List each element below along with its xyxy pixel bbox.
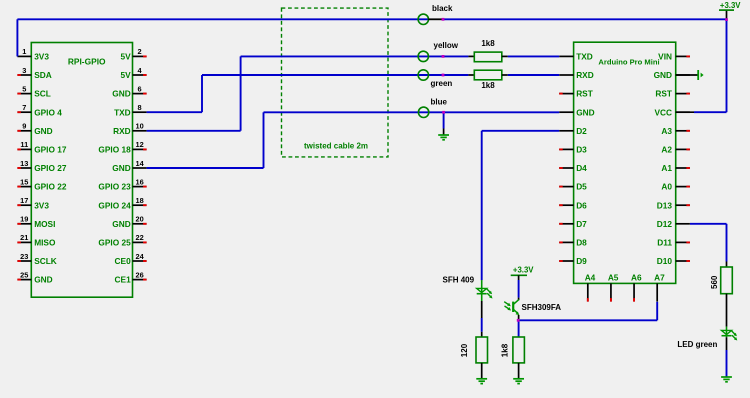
pin VIN of U1 (right): [658, 52, 690, 62]
svg-text:3V3: 3V3: [34, 200, 49, 210]
pin 11 (GPIO 17) of RPI-GPIO: [17, 140, 66, 154]
node on green wire: [442, 74, 445, 77]
connection-pin symbol at U1 GND: [697, 70, 699, 80]
svg-text:D6: D6: [576, 200, 587, 210]
svg-text:A4: A4: [585, 273, 596, 283]
svg-text:3V3: 3V3: [34, 52, 49, 62]
svg-text:VCC: VCC: [654, 107, 672, 117]
wire TXD horizontal: [202, 74, 468, 76]
pin 2 (5V) of RPI-GPIO: [121, 47, 147, 61]
pin A0 of U1 (right): [661, 182, 690, 192]
wire to VCC pin: [694, 111, 727, 113]
svg-text:20: 20: [135, 215, 143, 224]
svg-text:6: 6: [138, 84, 142, 93]
svg-text:Arduino Pro Mini: Arduino Pro Mini: [598, 58, 659, 67]
svg-text:1k8: 1k8: [481, 81, 495, 90]
wire LED to R3: [481, 301, 483, 318]
resistor R2 lead right: [502, 74, 508, 76]
svg-text:SDA: SDA: [34, 70, 52, 80]
pin 24 (CE0) of RPI-GPIO: [115, 252, 147, 266]
svg-text:RXD: RXD: [113, 126, 131, 136]
twisted-cable boundary box: [282, 8, 389, 157]
pin D4 of U1 (left): [559, 163, 587, 173]
connector J1 RPI-GPIO body: [31, 43, 132, 298]
svg-text:GPIO 4: GPIO 4: [34, 107, 62, 117]
svg-text:GPIO 18: GPIO 18: [98, 145, 131, 155]
svg-text:D9: D9: [576, 256, 587, 266]
wire RXD riser: [240, 56, 242, 130]
pin 12 (GPIO 18) of RPI-GPIO: [98, 140, 146, 154]
svg-text:1k8: 1k8: [481, 39, 495, 48]
pin 19 (MOSI) of RPI-GPIO: [17, 215, 55, 229]
plug circle on black wire: [418, 14, 428, 24]
pin 22 (GPIO 25) of RPI-GPIO: [98, 233, 146, 247]
resistor R2 1k8 (green line): [474, 70, 502, 80]
pin GND of U1 (right): [654, 70, 690, 80]
wire emitter to A7 horizontal: [519, 319, 658, 321]
svg-text:yellow: yellow: [434, 41, 459, 50]
svg-text:21: 21: [20, 233, 28, 242]
svg-text:D8: D8: [576, 238, 587, 248]
pin 10 (RXD) of RPI-GPIO: [113, 122, 146, 136]
pin A5 of U1 (bottom): [608, 273, 619, 302]
pin 5 (SCL) of RPI-GPIO: [17, 84, 50, 98]
pin TXD of U1 (left): [559, 52, 593, 62]
svg-text:23: 23: [20, 252, 28, 261]
pin 26 (CE1) of RPI-GPIO: [115, 270, 147, 284]
svg-text:9: 9: [22, 122, 26, 131]
svg-text:LED green: LED green: [677, 340, 717, 349]
pin A1 of U1 (right): [661, 163, 690, 173]
pin 6 (GND) of RPI-GPIO: [112, 84, 146, 98]
pin 18 (GPIO 24) of RPI-GPIO: [98, 196, 146, 210]
svg-text:24: 24: [135, 252, 144, 261]
svg-text:GND: GND: [112, 163, 130, 173]
svg-text:black: black: [432, 4, 453, 13]
LED D2 green: [722, 330, 732, 334]
resistor R1 lead right: [502, 55, 508, 57]
pin RST of U1 (left): [559, 89, 593, 99]
wire 3V3 top horizontal (left of plug): [17, 18, 428, 20]
svg-text:CE1: CE1: [115, 275, 132, 285]
svg-text:green: green: [431, 79, 453, 88]
pin A7 of U1 (bottom): [654, 273, 665, 302]
svg-text:D7: D7: [576, 219, 587, 229]
wire GND riser: [263, 112, 265, 168]
svg-text:11: 11: [20, 140, 28, 149]
svg-text:RXD: RXD: [576, 70, 594, 80]
svg-text:A6: A6: [631, 273, 642, 283]
pin RXD of U1 (left): [559, 70, 594, 80]
pin 9 (GND) of RPI-GPIO: [17, 122, 52, 136]
svg-text:SCLK: SCLK: [34, 256, 57, 266]
pin 14 (GND) of RPI-GPIO: [112, 159, 146, 173]
svg-text:15: 15: [20, 177, 28, 186]
pin A4 of U1 (bottom): [585, 273, 596, 302]
svg-text:SFH 409: SFH 409: [443, 276, 475, 285]
wire D12 drop: [726, 224, 728, 262]
wire RXD horizontal: [241, 55, 469, 57]
svg-text:A1: A1: [661, 163, 672, 173]
wire TXD riser: [201, 75, 203, 112]
pin 4 (5V) of RPI-GPIO: [121, 66, 147, 80]
pin 16 (GPIO 23) of RPI-GPIO: [98, 177, 146, 191]
pin D2 of U1 (left): [559, 126, 587, 136]
pin A3 of U1 (right): [661, 126, 690, 136]
svg-text:17: 17: [20, 196, 28, 205]
svg-text:18: 18: [135, 196, 143, 205]
wire 3V3 top horizontal (right): [443, 18, 727, 20]
node blue-wire ground tap: [442, 111, 445, 114]
svg-text:120: 120: [460, 343, 469, 357]
svg-text:TXD: TXD: [114, 107, 131, 117]
svg-text:RPI-GPIO: RPI-GPIO: [68, 56, 106, 66]
svg-text:1k8: 1k8: [500, 343, 509, 357]
wire R5 to LED: [726, 294, 728, 327]
wire D2 horizontal: [482, 130, 560, 132]
svg-text:GPIO 17: GPIO 17: [34, 145, 67, 155]
pin RST of U1 (right): [655, 89, 690, 99]
svg-text:7: 7: [22, 103, 26, 112]
pin 20 (GND) of RPI-GPIO: [112, 215, 146, 229]
svg-text:A2: A2: [661, 145, 672, 155]
pin D8 of U1 (left): [559, 238, 587, 248]
svg-text:560: 560: [710, 275, 719, 289]
ground symbol (R3): [476, 378, 487, 380]
svg-text:13: 13: [20, 159, 28, 168]
wire A7 drop: [656, 302, 658, 321]
node at +3.3V tap: [725, 18, 728, 21]
svg-text:A0: A0: [661, 182, 672, 192]
svg-text:+3.3V: +3.3V: [720, 1, 741, 10]
wire black cable segment: [428, 18, 443, 20]
svg-text:VIN: VIN: [658, 52, 672, 62]
svg-text:16: 16: [135, 177, 143, 186]
pin A6 of U1 (bottom): [631, 273, 642, 302]
svg-text:RST: RST: [576, 89, 593, 99]
pin GND of U1 (left): [559, 107, 594, 117]
pin D3 of U1 (left): [559, 145, 587, 155]
svg-text:GND: GND: [654, 70, 672, 80]
svg-text:twisted cable 2m: twisted cable 2m: [304, 142, 368, 151]
wire GND pin stub (U1 right): [676, 74, 699, 76]
resistor R4 1k8 (emitter): [513, 337, 525, 363]
svg-text:GND: GND: [112, 89, 130, 99]
pin 13 (GPIO 27) of RPI-GPIO: [17, 159, 66, 173]
svg-text:12: 12: [135, 140, 143, 149]
svg-text:10: 10: [135, 122, 143, 131]
wire +3.3V stem: [726, 10, 728, 19]
wire R4 to ground: [518, 363, 520, 379]
svg-text:GND: GND: [112, 219, 130, 229]
svg-text:D12: D12: [657, 219, 673, 229]
svg-text:blue: blue: [431, 97, 448, 106]
node on black wire: [442, 18, 445, 21]
wire TXD from RPI pin8: [147, 111, 202, 113]
svg-text:MISO: MISO: [34, 238, 56, 248]
wire GND from RPI pin14: [147, 167, 264, 169]
svg-text:3: 3: [22, 66, 26, 75]
pin D10 of U1 (right): [657, 256, 690, 266]
svg-text:+3.3V: +3.3V: [513, 266, 534, 275]
pin 8 (TXD) of RPI-GPIO: [114, 103, 147, 117]
wire to Arduino TXD: [508, 55, 559, 57]
node emitter junction: [517, 319, 520, 322]
pin D13 of U1 (right): [657, 200, 690, 210]
svg-text:14: 14: [135, 159, 144, 168]
svg-text:D13: D13: [657, 200, 673, 210]
pin 23 (SCLK) of RPI-GPIO: [17, 252, 56, 266]
svg-text:GPIO 25: GPIO 25: [98, 238, 131, 248]
ground symbol (blue wire): [438, 134, 449, 136]
svg-text:8: 8: [138, 103, 142, 112]
svg-text:RST: RST: [655, 89, 672, 99]
wire emitter to R4: [518, 320, 520, 337]
svg-text:GPIO 23: GPIO 23: [98, 182, 131, 192]
svg-text:MOSI: MOSI: [34, 219, 55, 229]
svg-text:A7: A7: [654, 273, 665, 283]
wire RXD from RPI pin10: [147, 130, 241, 132]
svg-text:5V: 5V: [121, 70, 132, 80]
pin D6 of U1 (left): [559, 200, 587, 210]
svg-text:22: 22: [135, 233, 143, 242]
svg-text:GND: GND: [34, 275, 52, 285]
svg-text:19: 19: [20, 215, 28, 224]
resistor R1 lead left: [468, 55, 474, 57]
wire VCC drop: [726, 20, 728, 113]
svg-text:GND: GND: [34, 126, 52, 136]
svg-text:CE0: CE0: [115, 256, 132, 266]
ground symbol (LED green): [721, 376, 732, 378]
pin D5 of U1 (left): [559, 182, 587, 192]
svg-text:D10: D10: [657, 256, 673, 266]
pin 7 (GPIO 4) of RPI-GPIO: [17, 103, 62, 117]
pin D7 of U1 (left): [559, 219, 587, 229]
plug circle on yellow wire: [418, 51, 428, 61]
+3.3V power symbol (top right): [719, 9, 734, 11]
svg-text:5: 5: [22, 84, 26, 93]
resistor R3 120: [476, 337, 488, 363]
svg-text:D3: D3: [576, 145, 587, 155]
svg-text:SFH309FA: SFH309FA: [522, 303, 562, 312]
node on yellow wire: [442, 55, 445, 58]
wire D2 drop to LED: [481, 131, 483, 280]
svg-text:SCL: SCL: [34, 89, 51, 99]
svg-text:TXD: TXD: [576, 52, 593, 62]
pin D12 of U1 (right): [657, 219, 690, 229]
svg-text:1: 1: [22, 47, 26, 56]
pin D9 of U1 (left): [559, 256, 587, 266]
pin 3 (SDA) of RPI-GPIO: [17, 66, 51, 80]
wire 3V3 riser from RPI pin1: [16, 19, 18, 56]
svg-text:25: 25: [20, 270, 28, 279]
pin D11 of U1 (right): [657, 238, 690, 248]
wire R3 to ground: [481, 363, 483, 379]
wire to Arduino RXD: [508, 74, 559, 76]
svg-text:GND: GND: [576, 107, 594, 117]
ground symbol (R4): [513, 378, 524, 380]
pin 15 (GPIO 22) of RPI-GPIO: [17, 177, 66, 191]
pin 17 (3V3) of RPI-GPIO: [17, 196, 49, 210]
svg-text:GPIO 24: GPIO 24: [98, 200, 131, 210]
wire GND horizontal: [264, 111, 560, 113]
wire D12 horizontal: [690, 223, 727, 225]
plug circle on green wire: [418, 70, 428, 80]
pin 25 (GND) of RPI-GPIO: [17, 270, 52, 284]
svg-text:A3: A3: [661, 126, 672, 136]
svg-text:2: 2: [138, 47, 142, 56]
svg-text:A5: A5: [608, 273, 619, 283]
svg-text:D4: D4: [576, 163, 587, 173]
svg-text:5V: 5V: [121, 52, 132, 62]
wire emitter to node: [518, 315, 520, 320]
IC U1 Arduino Pro Mini body: [574, 42, 676, 283]
phototransistor Q1 SFH309FA: [504, 300, 519, 316]
svg-text:GPIO 27: GPIO 27: [34, 163, 67, 173]
svg-text:26: 26: [135, 270, 143, 279]
svg-text:D5: D5: [576, 182, 587, 192]
resistor R5 560: [721, 267, 733, 294]
svg-text:GPIO 22: GPIO 22: [34, 182, 67, 192]
svg-text:D11: D11: [657, 238, 672, 248]
pin 21 (MISO) of RPI-GPIO: [17, 233, 56, 247]
wire ground branch: [443, 112, 445, 128]
+3.3V power symbol (phototransistor): [511, 274, 527, 276]
resistor R1 1k8 (yellow line): [474, 52, 502, 62]
wire LED green to ground: [726, 337, 728, 350]
plug circle on blue wire: [418, 107, 428, 117]
svg-text:D2: D2: [576, 126, 587, 136]
wire +3.3V to collector: [518, 275, 520, 280]
pin 1 (3V3) of RPI-GPIO: [17, 47, 49, 61]
resistor R2 lead left: [468, 74, 474, 76]
pin VCC of U1 (right): [654, 107, 689, 117]
pin A2 of U1 (right): [661, 145, 690, 155]
LED D1 SFH 409 (IR emitter): [477, 288, 487, 292]
